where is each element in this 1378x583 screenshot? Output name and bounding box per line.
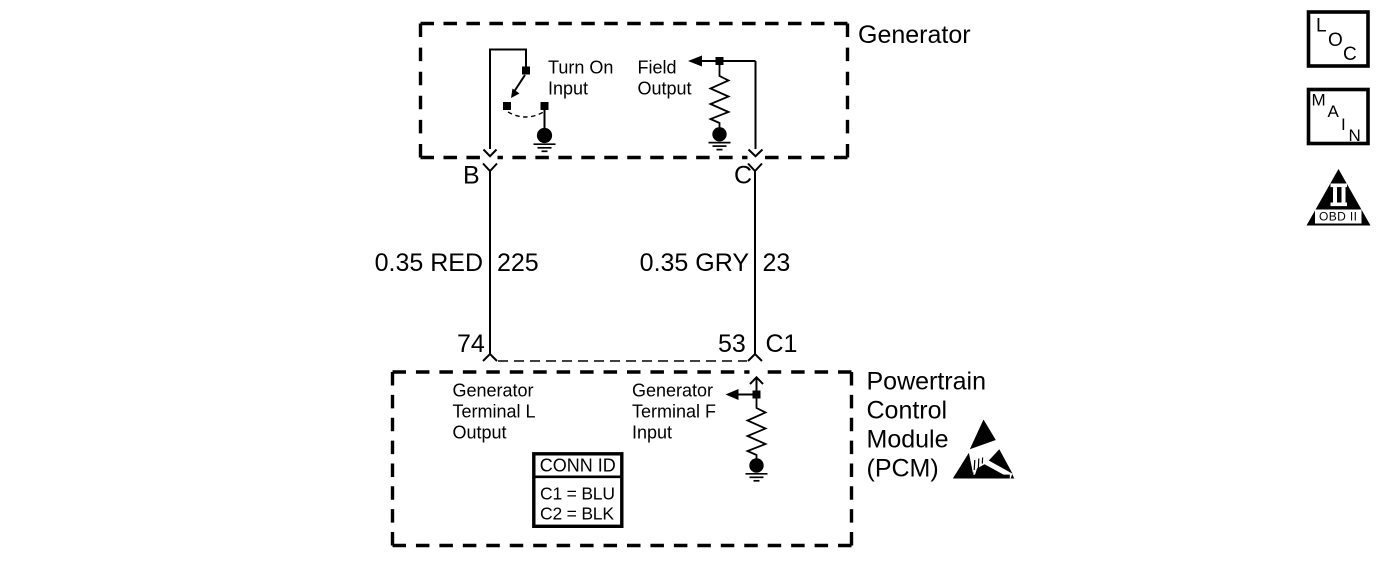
svg-text:Input: Input — [632, 423, 672, 443]
svg-text:N: N — [1349, 126, 1361, 145]
wire: turn-on branch top — [490, 50, 526, 150]
svg-text:C: C — [1343, 44, 1357, 65]
connector half at pin 74 — [483, 354, 497, 361]
arrow up toward pin 53 inside PCM — [750, 377, 763, 394]
resistor R-field — [711, 65, 729, 128]
resistor R-PCM — [748, 399, 766, 459]
ground G2 — [709, 127, 731, 150]
connector half at C — [748, 164, 762, 172]
arrow into box edge at B — [484, 150, 497, 157]
label Generator Terminal L Output — [453, 381, 536, 443]
svg-text:I: I — [1341, 115, 1346, 134]
PCM left arrowhead — [726, 389, 739, 400]
svg-text:L: L — [1316, 15, 1327, 36]
label Generator Terminal F Input — [632, 381, 716, 443]
dash gap at 53 arrow crossing — [750, 369, 764, 376]
svg-text:A: A — [1328, 102, 1340, 121]
svg-text:74: 74 — [457, 330, 485, 358]
svg-text:CONN ID: CONN ID — [540, 456, 616, 476]
svg-text:Control: Control — [867, 397, 948, 425]
svg-text:M: M — [1312, 90, 1326, 109]
OBD II icon — [1307, 169, 1371, 226]
junction at top of PCM resistor — [753, 391, 761, 399]
svg-text:Input: Input — [548, 79, 588, 99]
ground G3 — [746, 458, 768, 481]
svg-text:OBD II: OBD II — [1319, 210, 1357, 224]
switch S1 fixed contact — [522, 67, 530, 75]
svg-text:Powertrain: Powertrain — [867, 368, 987, 396]
switch S1 travel arc (dashed) — [508, 112, 544, 117]
svg-text:B: B — [463, 162, 480, 190]
ground G1 — [534, 128, 556, 151]
svg-text:Module: Module — [867, 426, 949, 454]
svg-text:Terminal L: Terminal L — [453, 402, 536, 422]
svg-text:Generator: Generator — [453, 381, 534, 401]
svg-text:Output: Output — [453, 423, 507, 443]
svg-text:53: 53 — [718, 330, 746, 358]
switch S1 moving contact — [503, 102, 511, 110]
dash gaps at B and C wire crossings — [483, 154, 498, 161]
svg-text:225: 225 — [497, 249, 539, 277]
svg-text:23: 23 — [763, 249, 791, 277]
svg-text:Terminal F: Terminal F — [632, 402, 716, 422]
svg-text:O: O — [1328, 30, 1343, 51]
svg-text:0.35 GRY: 0.35 GRY — [640, 249, 750, 277]
connector C1 face (thin dashed line) — [498, 360, 747, 362]
svg-text:C1: C1 — [766, 330, 798, 358]
field output arrowhead — [688, 56, 702, 67]
wire: field branch down to C — [755, 61, 757, 149]
arrow into box edge at C — [749, 150, 763, 157]
MAIN icon — [1309, 90, 1369, 145]
svg-text:Generator: Generator — [858, 21, 971, 49]
wire contact to ground G1 — [544, 110, 546, 128]
wire: junction to left arrowhead — [737, 394, 753, 396]
CONN ID table — [534, 454, 622, 527]
generator dashed box — [421, 24, 848, 158]
connector half at pin 53 — [748, 354, 762, 361]
PCM box label — [867, 368, 987, 483]
LOC locator icon — [1309, 12, 1369, 66]
svg-text:(PCM): (PCM) — [867, 455, 939, 483]
svg-text:0.35 RED: 0.35 RED — [375, 249, 483, 277]
svg-text:Turn On: Turn On — [548, 58, 613, 78]
svg-text:Field: Field — [638, 58, 677, 78]
connector half at B — [483, 164, 497, 172]
svg-text:C2 = BLK: C2 = BLK — [540, 504, 614, 524]
PCM dashed box — [393, 372, 852, 546]
wire: field output horizontal — [700, 60, 756, 62]
switch S1 arm with arrowhead — [511, 75, 525, 98]
switch S1 ground-side contact — [541, 102, 549, 110]
wire C to 53 (0.35 GRY 23) — [754, 171, 756, 354]
ESD warning symbol — [953, 420, 1014, 479]
junction at top of field resistor — [716, 57, 724, 65]
svg-text:Output: Output — [638, 79, 692, 99]
svg-text:Generator: Generator — [632, 381, 713, 401]
wire B to 74 (0.35 RED 225) — [489, 171, 491, 354]
svg-text:C1 = BLU: C1 = BLU — [540, 483, 615, 503]
